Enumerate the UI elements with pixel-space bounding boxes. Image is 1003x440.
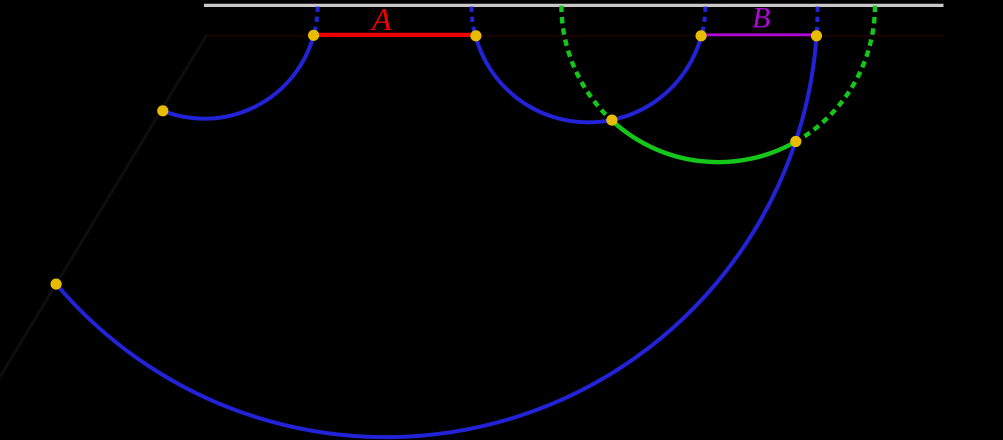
- arc c2 dashed right: [701, 5, 705, 35]
- point P4: [811, 30, 822, 41]
- green arc solid D2 to D3: [612, 120, 796, 162]
- point D3: [790, 136, 801, 147]
- diagonal line: [0, 36, 206, 377]
- green arc dashed left: [561, 6, 611, 121]
- green arc dashed right: [796, 6, 875, 142]
- point D4: [51, 279, 62, 290]
- arc c1 dashed above axis: [314, 5, 318, 35]
- point P2: [470, 30, 481, 41]
- boundary line (gray): [204, 4, 944, 7]
- svg-text:A: A: [370, 1, 392, 37]
- arc c2 solid (blue) P2 to P3: [475, 36, 701, 123]
- segment A (red): [314, 33, 476, 37]
- point P3: [696, 30, 707, 41]
- point D1: [157, 105, 168, 116]
- point P1: [308, 30, 319, 41]
- segment B (violet): [701, 33, 817, 36]
- arc c4 solid (big blue) P4 to D4: [56, 36, 816, 437]
- arc c4 dashed above axis: [817, 5, 818, 35]
- point D2: [606, 115, 617, 126]
- arc c2 dashed left: [471, 5, 475, 35]
- axis line (dark): [205, 34, 945, 37]
- svg-text:B: B: [752, 1, 770, 34]
- arc c1 solid (blue) P1 to D1: [163, 36, 314, 119]
